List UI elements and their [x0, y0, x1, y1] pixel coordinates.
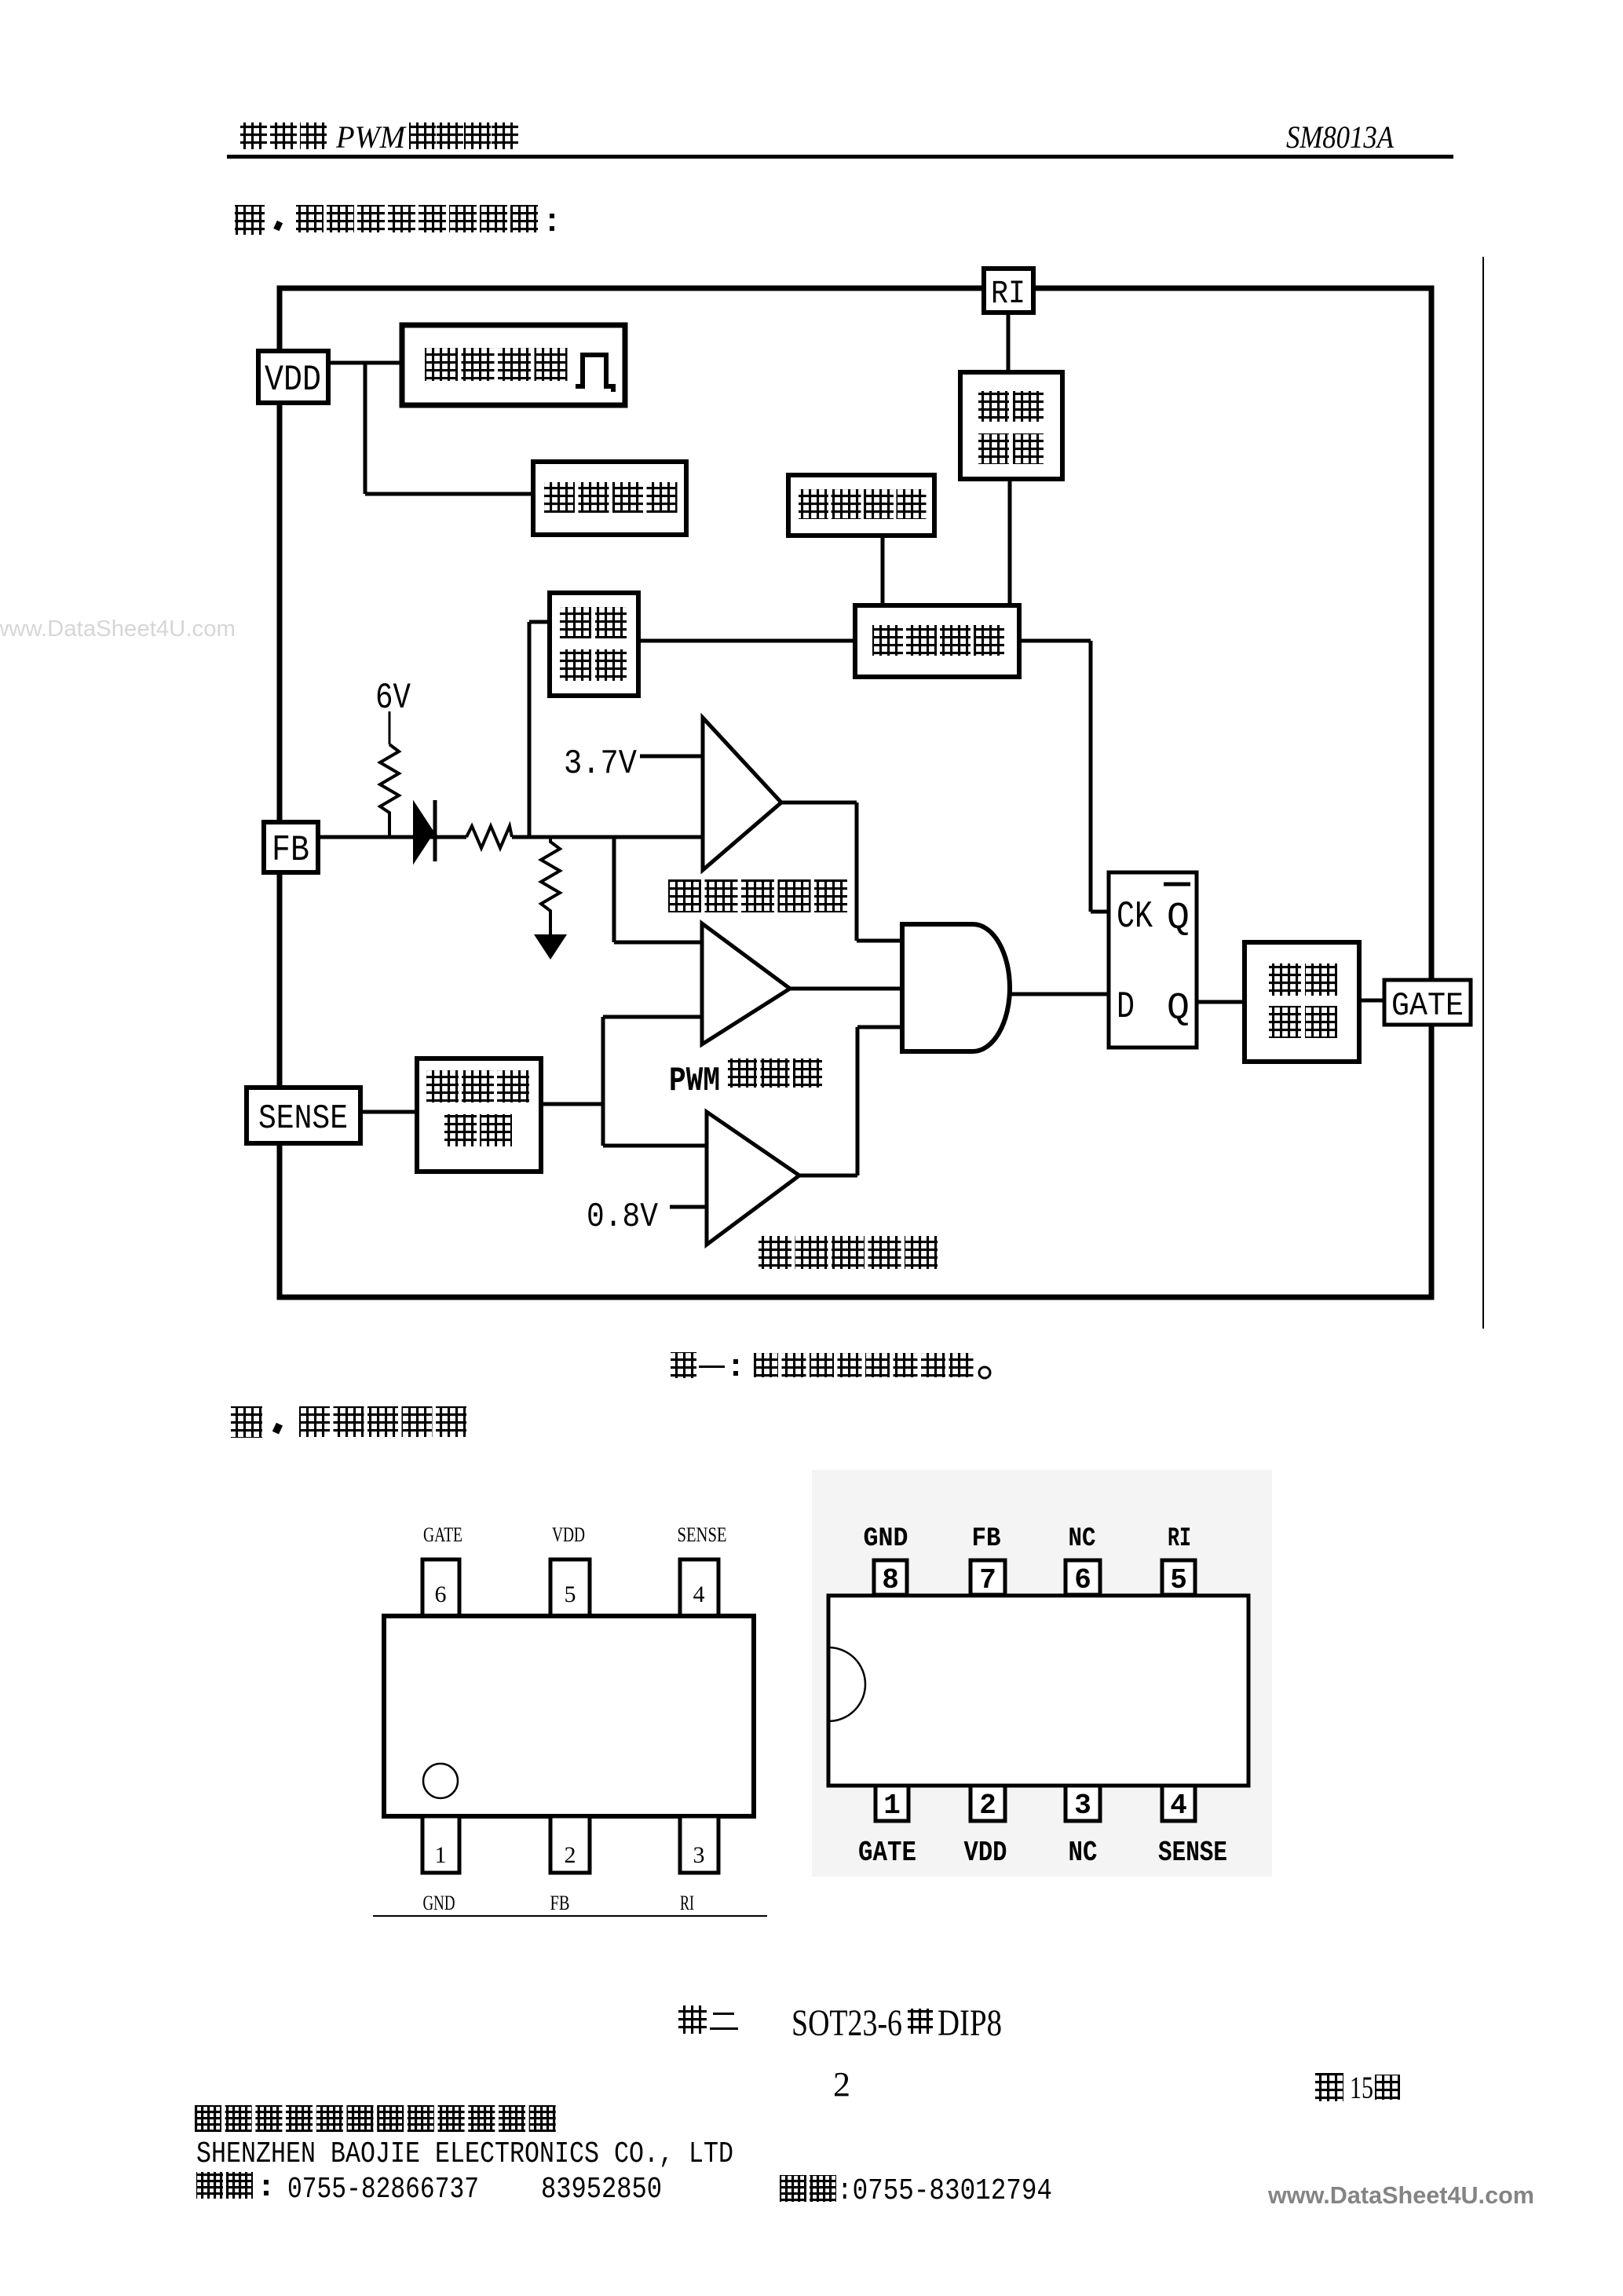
svg-text:SENSE: SENSE: [678, 1523, 727, 1546]
block: frequency adjust (pin-lv-tiao-zheng): [550, 593, 638, 696]
svg-text:2: 2: [565, 1842, 576, 1868]
wire VDD to power-detect: [324, 361, 405, 365]
svg-text:GATE: GATE: [858, 1837, 916, 1869]
wire 0.8V reference input: [670, 1205, 709, 1209]
wire 3.7V reference input: [640, 755, 704, 759]
pin box VDD: [258, 351, 328, 403]
DIP8 pin 6: [1066, 1560, 1100, 1596]
wire PWM comparator output to AND: [788, 987, 902, 991]
wire sawtooth output: [539, 1017, 603, 1146]
svg-text:SENSE: SENSE: [1158, 1837, 1227, 1869]
wire 6V stub: [389, 711, 391, 744]
resistor R3 (vertical, to ground): [541, 837, 560, 934]
resistor R1 (vertical, from 6V): [380, 744, 399, 837]
svg-text:RI: RI: [680, 1892, 694, 1914]
wire oscillator to freq-adjust: [636, 639, 857, 643]
pin box SENSE: [247, 1088, 360, 1143]
page count: gong 15 ye: [1315, 2070, 1400, 2105]
svg-text:6: 6: [435, 1581, 447, 1607]
svg-text:0755-82866737: 0755-82866737: [287, 2173, 479, 2206]
op-amp U3: overcurrent comparator: [707, 1112, 799, 1245]
svg-text:FB: FB: [272, 830, 309, 871]
section title 5: package diagram: [231, 1406, 466, 1438]
wire overload comparator output to AND: [779, 803, 902, 941]
SOT23-6 pin 5: [550, 1559, 590, 1616]
svg-text:www.DataSheet4U.com: www.DataSheet4U.com: [0, 616, 236, 642]
wire sawtooth to overcurrent comparator input: [603, 1144, 709, 1148]
AND gate U4: [902, 924, 1010, 1051]
wire freq-jitter to oscillator: [881, 534, 885, 608]
svg-text:6: 6: [1074, 1564, 1091, 1596]
svg-text:SOT23-6: SOT23-6: [791, 2002, 902, 2044]
header title: dian-liu-xing PWM kong-zhi-xin-pian: [240, 119, 518, 155]
DIP8 top labels GND FB NC RI: [864, 1524, 1192, 1554]
svg-text:RI: RI: [1168, 1524, 1191, 1554]
svg-text:FB: FB: [550, 1892, 570, 1914]
label: overcurrent comparator (guo-liu-bi-jiao-qi): [758, 1236, 791, 1269]
svg-text:CK: CK: [1117, 896, 1153, 938]
wire FB rail: [316, 835, 704, 839]
outer border of block diagram: [280, 288, 1431, 1297]
wire oscillator to flip-flop CK: [1017, 641, 1111, 912]
svg-text:6V: 6V: [375, 678, 411, 718]
wire RI to freq-select: [1007, 311, 1011, 375]
svg-text:3: 3: [1074, 1790, 1091, 1822]
SOT23-6 baseline rule: [373, 1915, 767, 1917]
DIP8 pin 4: [1162, 1786, 1195, 1822]
svg-text:PWM: PWM: [335, 119, 408, 155]
block: power detect (dian-yuan-jian-ce): [402, 325, 625, 405]
svg-text:15: 15: [1350, 2070, 1373, 2105]
flip-flop U5 (D latch): [1109, 872, 1197, 1047]
caption: figure 1: [671, 1352, 990, 1378]
svg-text:VDD: VDD: [552, 1523, 585, 1546]
svg-text:GATE: GATE: [423, 1523, 462, 1546]
svg-text:Q: Q: [1167, 898, 1190, 940]
resistor R2 (horizontal, series FB): [466, 826, 512, 848]
svg-text:0.8V: 0.8V: [587, 1197, 659, 1237]
footer phone line: [196, 2172, 1052, 2208]
SOT23-6 pin1 dot: [423, 1764, 458, 1798]
svg-text:2: 2: [833, 2065, 850, 2104]
DIP8 pin 1: [875, 1786, 908, 1822]
wire branch down to OVP: [365, 361, 536, 494]
wire sawtooth to PWM comparator input: [603, 1015, 704, 1019]
DIP8 background: [812, 1470, 1272, 1877]
svg-text:NC: NC: [1069, 1524, 1096, 1554]
SOT23-6 pin 6: [422, 1559, 459, 1616]
block: output driver (shu-chu-qu-dong): [1245, 942, 1359, 1062]
SOT23-6 pin 2: [550, 1816, 590, 1873]
DIP8 pin 2: [971, 1786, 1005, 1822]
svg-text:2: 2: [979, 1790, 996, 1822]
header rule: [227, 155, 1453, 159]
svg-text:7: 7: [979, 1564, 996, 1596]
wire overcurrent comparator output to AND: [798, 1027, 902, 1175]
pin box RI: [984, 269, 1033, 313]
svg-text:GND: GND: [423, 1892, 455, 1914]
wire flip-flop Q to output-driver: [1194, 1000, 1247, 1004]
svg-text:GND: GND: [864, 1524, 908, 1554]
section title 4: internal function block diagram: [235, 205, 554, 235]
SOT23-6 bottom labels GND FB RI: [423, 1892, 695, 1914]
SOT23-6 pin 4: [680, 1559, 718, 1616]
DIP8 bottom labels GATE VDD NC SENSE: [858, 1837, 1227, 1869]
DIP8 pin 5: [1162, 1560, 1195, 1596]
svg-text:www.DataSheet4U.com: www.DataSheet4U.com: [1267, 2181, 1534, 2209]
pin box GATE: [1384, 980, 1471, 1025]
labels 3.7V and 0.8V: [564, 744, 659, 1237]
block: frequency jitter (pin-lv-dou-dong): [788, 475, 934, 536]
zener diode D1: [414, 800, 435, 862]
op-amp U2: PWM comparator: [702, 923, 790, 1044]
svg-text:3.7V: 3.7V: [564, 744, 638, 784]
block: over-voltage protection (guo-ya-bao-hu): [533, 462, 686, 535]
node A: FB divider branch to PWM comparator: [614, 837, 704, 942]
svg-text:VDD: VDD: [265, 360, 321, 400]
svg-text:VDD: VDD: [964, 1837, 1007, 1869]
svg-text:83952850: 83952850: [541, 2173, 662, 2206]
svg-text:1: 1: [883, 1790, 901, 1822]
ground: [534, 934, 567, 960]
wire SENSE to sawtooth block: [358, 1110, 419, 1114]
svg-text:3: 3: [693, 1842, 705, 1868]
DIP8 body: [828, 1596, 1248, 1786]
SOT23-6 pin 1: [422, 1816, 459, 1873]
wire freq-adjust left drop to FB node: [529, 622, 552, 837]
block: frequency select (pin-lv-xuan-ze): [960, 372, 1062, 479]
svg-text:1: 1: [435, 1842, 447, 1868]
DIP8 pin 8: [874, 1560, 907, 1596]
footer company name (bold CJK): [195, 2105, 221, 2132]
svg-text:8: 8: [882, 1564, 899, 1596]
svg-text:DIP8: DIP8: [938, 2002, 1002, 2044]
svg-text::0755-83012794: :0755-83012794: [837, 2174, 1052, 2208]
label: PWM comparator: [669, 1058, 822, 1101]
block: oscillator (zhen-dang-dian-lu): [855, 605, 1019, 677]
svg-text:Q: Q: [1167, 988, 1190, 1030]
DIP8 pin 3: [1066, 1786, 1100, 1822]
block: sawtooth compensation (ju-chi-bo bu-chang): [417, 1058, 541, 1172]
label: overload comparator (guo-zai-bi-jiao-qi): [668, 879, 701, 912]
svg-text:RI: RI: [991, 275, 1025, 313]
svg-text:5: 5: [565, 1581, 576, 1607]
DIP8 pin 7: [971, 1560, 1005, 1596]
wire AND gate to flip-flop D: [1007, 993, 1111, 996]
op-amp U1: overload comparator: [703, 718, 781, 870]
SOT23-6 body: [384, 1616, 754, 1816]
svg-text:5: 5: [1170, 1564, 1187, 1596]
svg-text:SENSE: SENSE: [258, 1099, 348, 1139]
svg-text:4: 4: [693, 1581, 705, 1607]
pin box FB: [264, 822, 318, 872]
svg-text:4: 4: [1170, 1790, 1187, 1822]
svg-text:GATE: GATE: [1391, 987, 1464, 1025]
svg-text:D: D: [1117, 986, 1135, 1029]
SOT23-6 pin 3: [680, 1816, 718, 1873]
wire output-driver to GATE: [1357, 999, 1387, 1003]
DIP8 notch: [828, 1647, 865, 1721]
SOT23-6 top labels GATE VDD SENSE: [423, 1523, 727, 1546]
svg-text:SHENZHEN BAOJIE ELECTRONICS CO: SHENZHEN BAOJIE ELECTRONICS CO., LTD: [196, 2137, 733, 2171]
wire freq-select to oscillator: [1008, 477, 1012, 608]
svg-text:PWM: PWM: [669, 1062, 720, 1101]
caption: figure 2 SOT23-6 and DIP8: [678, 2002, 1002, 2044]
thin page divider line (right): [1482, 257, 1484, 1329]
svg-text:NC: NC: [1069, 1837, 1098, 1869]
svg-text:SM8013A: SM8013A: [1286, 119, 1394, 155]
svg-text:FB: FB: [972, 1524, 1001, 1554]
